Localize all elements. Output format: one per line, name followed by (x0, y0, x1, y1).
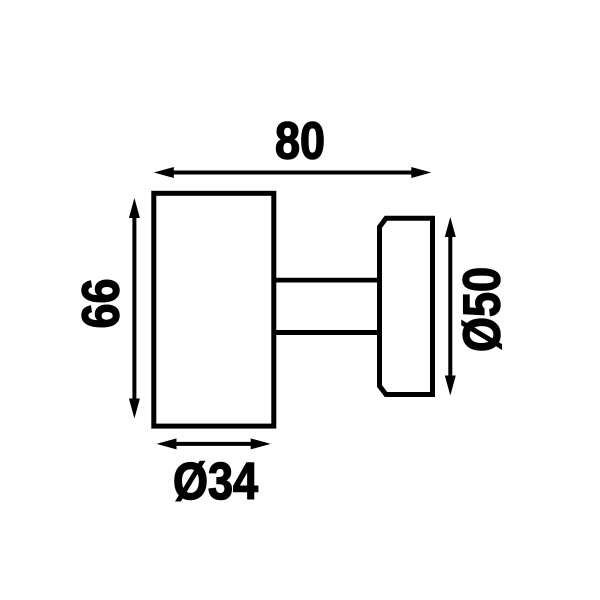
mounting plate (chamfered left corners) (380, 218, 433, 394)
dimension 80: horizontal line (172, 171, 413, 175)
cylinder body (main rectangle) (154, 193, 274, 426)
dimension 80: left arrowhead (154, 167, 174, 178)
dimension 66: bottom arrowhead (129, 399, 140, 419)
dimension 66: vertical line (132, 216, 136, 401)
dimension 50: bottom arrowhead (445, 376, 456, 396)
label Ø34 (173, 453, 258, 511)
stem bottom line (274, 330, 380, 335)
dimension 34: horizontal double arrow line (175, 442, 252, 446)
dimension 34: right arrowhead (251, 438, 271, 449)
dimension 50: top arrowhead (445, 217, 456, 237)
svg-text:Ø50: Ø50 (454, 267, 512, 352)
dimension 80: right arrowhead (411, 167, 431, 178)
label 66 (rotated) (73, 278, 131, 328)
dimension 34: left arrowhead (157, 438, 177, 449)
svg-text:80: 80 (275, 112, 325, 170)
label 80 (275, 112, 325, 170)
label Ø50 (rotated) (454, 267, 512, 352)
svg-text:Ø34: Ø34 (173, 453, 258, 511)
svg-text:66: 66 (73, 278, 131, 328)
dimension 66: top arrowhead (129, 198, 140, 218)
dimension 50: vertical line (448, 236, 452, 377)
stem top line (274, 278, 380, 283)
